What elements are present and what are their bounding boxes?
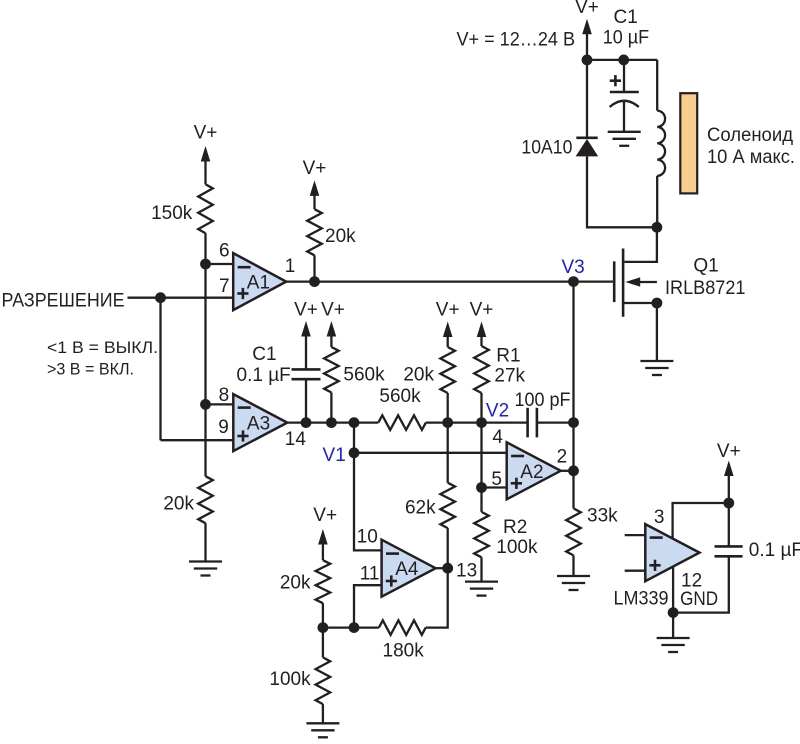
power V+ above C1-0.1: [294, 300, 318, 369]
junction C1 node: [301, 417, 312, 428]
resistor 100k bottom: [316, 657, 331, 704]
svg-text:27k: 27k: [494, 366, 525, 387]
svg-text:V+: V+: [575, 0, 599, 18]
svg-text:R1: R1: [496, 346, 520, 367]
solenoid core bar: [680, 93, 697, 193]
diode 10A10: [576, 138, 599, 157]
wire 150k to pin6/pin8/20k: [204, 233, 206, 476]
junction source node: [652, 298, 663, 309]
svg-text:33k: 33k: [587, 506, 618, 527]
ground below Q1: [640, 361, 673, 375]
svg-text:150k: 150k: [151, 203, 193, 224]
svg-text:V2: V2: [486, 400, 509, 421]
junction pin8 node: [200, 399, 211, 410]
svg-text:20k: 20k: [163, 494, 194, 515]
svg-text:V+: V+: [303, 158, 327, 179]
wire V1 to A2 pin4: [354, 452, 507, 454]
wire C1 to ground: [623, 102, 625, 132]
svg-text:A1: A1: [247, 273, 270, 294]
svg-text:5: 5: [491, 469, 502, 490]
svg-text:100k: 100k: [269, 669, 311, 690]
svg-text:>3 В = ВКЛ.: >3 В = ВКЛ.: [47, 360, 134, 379]
wire 180k to A4 out: [426, 568, 448, 627]
svg-text:560k: 560k: [343, 364, 385, 385]
junction A1 out node: [309, 276, 320, 287]
resistor R1 27k: [474, 346, 489, 393]
capacitor C1 10uF polarized: [610, 92, 639, 107]
wire A3 row mid: [426, 421, 528, 423]
wire diode branch bottom: [587, 156, 657, 227]
wire 20k to A1 out: [313, 255, 315, 281]
wire R1 to V2: [480, 393, 482, 423]
power V+ above R1: [470, 300, 494, 346]
wire drain lead: [625, 227, 657, 262]
wire 20k-mid to row: [447, 393, 449, 423]
transistor Q1 channel bar: [622, 249, 625, 317]
wire A4 output lead: [436, 567, 448, 569]
wire cap top lead: [728, 503, 730, 546]
svg-text:100 pF: 100 pF: [515, 390, 571, 411]
capacitor C1 0.1uF: [292, 369, 321, 379]
ground below C1 10uF: [608, 132, 641, 146]
svg-text:20k: 20k: [403, 364, 434, 385]
junction supply node: [582, 55, 593, 66]
svg-text:A4: A4: [395, 559, 419, 580]
ground below LM339: [657, 638, 690, 652]
svg-text:C1: C1: [252, 344, 276, 365]
svg-text:V+ = 12…24 В: V+ = 12…24 В: [457, 30, 576, 51]
wire pin12 lead: [672, 567, 674, 613]
svg-text:V+: V+: [294, 300, 318, 321]
resistor 560k pullup: [324, 347, 339, 393]
svg-text:10: 10: [357, 526, 378, 547]
svg-text:20k: 20k: [325, 226, 356, 247]
wire 100k to ground: [322, 704, 324, 723]
svg-text:10A10: 10A10: [521, 138, 572, 159]
junction pin6 node: [200, 259, 211, 270]
junction node V2: [476, 417, 487, 428]
power V+ main supply: [575, 0, 599, 60]
power V+ above 20k-bottom: [313, 505, 337, 560]
wire coil bottom lead: [656, 176, 658, 227]
svg-text:<1 В = ВЫКЛ.: <1 В = ВЫКЛ.: [47, 338, 158, 357]
resistor 20k A1-out: [307, 209, 322, 255]
wire R2 to ground: [480, 557, 482, 581]
svg-text:Соленоид: Соленоид: [707, 125, 793, 146]
resistor 150k: [198, 184, 213, 233]
svg-text:0.1 µF: 0.1 µF: [237, 365, 291, 386]
svg-text:V+: V+: [436, 300, 460, 321]
svg-text:7: 7: [219, 276, 230, 297]
svg-text:10 А макс.: 10 А макс.: [707, 147, 795, 168]
resistor 20k mid: [440, 347, 455, 393]
junction pin11 node: [349, 622, 360, 633]
svg-text:V+: V+: [321, 300, 345, 321]
ground below R2: [465, 582, 498, 596]
ground below 20k: [189, 562, 222, 576]
svg-text:R2: R2: [503, 517, 527, 538]
svg-text:13: 13: [456, 561, 477, 582]
wire A4 pin11 lead: [354, 585, 382, 627]
svg-text:3: 3: [654, 507, 665, 528]
wire divider row: [323, 626, 379, 628]
resistor R2 100k: [474, 512, 489, 557]
svg-text:100k: 100k: [496, 537, 538, 558]
wire 33k to ground: [572, 555, 574, 576]
svg-text:V+: V+: [717, 441, 741, 462]
wire V2 to R2: [480, 423, 482, 512]
junction pin5 node: [476, 482, 487, 493]
svg-text:V+: V+: [470, 300, 494, 321]
wire source lead: [623, 302, 657, 304]
wire A2 pin5 lead: [482, 486, 507, 488]
junction A4 out node: [442, 563, 453, 574]
wire input lead: [128, 297, 233, 299]
svg-text:IRLB8721: IRLB8721: [665, 278, 746, 299]
junction 20k/62k node: [442, 417, 453, 428]
inductor solenoid coil: [657, 111, 665, 176]
wire A3 pin8 lead: [206, 403, 234, 405]
svg-text:560k: 560k: [379, 386, 421, 407]
power V+ above 560k: [321, 300, 345, 347]
wire 20k-bottom to node: [322, 603, 324, 627]
wire 20k to ground: [204, 523, 206, 561]
wire 560k to A3 row: [330, 393, 332, 423]
wire 62k to A4 out: [447, 528, 449, 568]
svg-text:V+: V+: [194, 123, 218, 144]
junction node V1: [349, 447, 360, 458]
svg-text:4: 4: [492, 427, 503, 448]
wire supply top row: [587, 59, 657, 61]
wire node to 100k: [322, 628, 324, 658]
svg-text:180k: 180k: [383, 641, 425, 662]
svg-text:14: 14: [285, 429, 307, 450]
svg-text:Q1: Q1: [693, 256, 718, 277]
junction divider node: [318, 622, 329, 633]
junction gnd node: [668, 607, 679, 618]
wire A3 output row left: [287, 421, 378, 423]
junction coil bottom node: [652, 222, 663, 233]
wire A3 pin9 lead: [161, 439, 234, 441]
svg-text:V+: V+: [313, 505, 337, 526]
resistor 33k: [566, 508, 581, 555]
wire V1 vertical to A4 pin10: [354, 423, 382, 551]
svg-text:1: 1: [285, 256, 296, 277]
power V+ above 150k: [194, 123, 218, 185]
capacitor 100 pF: [528, 408, 537, 438]
junction input node: [155, 292, 166, 303]
svg-text:9: 9: [218, 417, 229, 438]
svg-text:0.1 µF: 0.1 µF: [749, 540, 800, 561]
wire diode branch top: [586, 60, 588, 138]
wire coil top lead: [656, 60, 658, 111]
resistor 560k feedback: [378, 415, 426, 430]
transistor Q1 gate bar: [613, 261, 616, 302]
resistor 20k lower-A3: [198, 476, 213, 523]
capacitor 0.1uF LM339: [715, 546, 743, 556]
wire pin3 lead: [673, 503, 729, 539]
svg-text:V3: V3: [562, 257, 585, 278]
svg-text:8: 8: [219, 385, 230, 406]
svg-text:РАЗРЕШЕНИЕ: РАЗРЕШЕНИЕ: [2, 291, 125, 312]
power V+ LM339 supply: [717, 441, 741, 503]
wire A3 row right: [537, 421, 574, 423]
op-amp A3: [233, 394, 287, 451]
wire V3 vertical: [572, 282, 574, 509]
junction A2 out node: [568, 465, 579, 476]
svg-text:A3: A3: [247, 414, 270, 435]
wire source to ground: [656, 303, 658, 361]
junction A3 row V1-branch node: [349, 417, 360, 428]
power V+ above 20k-mid: [436, 300, 460, 347]
wire pin12 to ground: [672, 613, 674, 638]
op-amp A1: [233, 253, 286, 310]
svg-text:A2: A2: [520, 462, 543, 483]
wire A2 output: [561, 470, 574, 472]
svg-text:LM339: LM339: [614, 589, 669, 610]
svg-text:6: 6: [219, 241, 230, 262]
junction 100pF out node: [568, 417, 579, 428]
wire enable bus vertical: [159, 298, 161, 441]
ground below 100k: [306, 723, 339, 737]
resistor 62k: [440, 483, 455, 528]
LM339 noninverting input stub: [625, 570, 646, 572]
wire C1 drop: [623, 60, 625, 92]
junction C1 top node: [618, 55, 629, 66]
resistor 20k bottom: [316, 560, 331, 603]
plus sign C1: [610, 75, 621, 86]
op-amp A2: [507, 442, 561, 499]
junction 560k node: [326, 417, 337, 428]
comparator LM339: [645, 524, 699, 581]
svg-text:2: 2: [557, 447, 568, 468]
power V+ above 20k-A1out: [303, 158, 327, 209]
wire C1 to A3 row: [305, 380, 307, 422]
svg-text:20k: 20k: [280, 573, 311, 594]
ground below 33k: [557, 576, 590, 590]
svg-text:62k: 62k: [405, 497, 436, 518]
wire A1 pin6 lead: [206, 263, 233, 265]
junction node V3: [568, 276, 579, 287]
wire A1 output to gate: [286, 280, 613, 282]
resistor 180k: [379, 620, 426, 635]
op-amp A4: [382, 540, 436, 597]
svg-text:11: 11: [360, 564, 380, 585]
wire row to 62k: [447, 423, 449, 483]
svg-text:V1: V1: [323, 445, 346, 466]
svg-text:C1: C1: [614, 7, 638, 28]
junction V+ cap node: [723, 498, 734, 509]
LM339 inverting input stub: [625, 534, 646, 536]
svg-text:GND: GND: [680, 589, 718, 610]
transistor Q1 body arrow: [625, 277, 657, 286]
svg-text:10 µF: 10 µF: [603, 27, 650, 48]
wire gnd to cap: [673, 556, 729, 612]
